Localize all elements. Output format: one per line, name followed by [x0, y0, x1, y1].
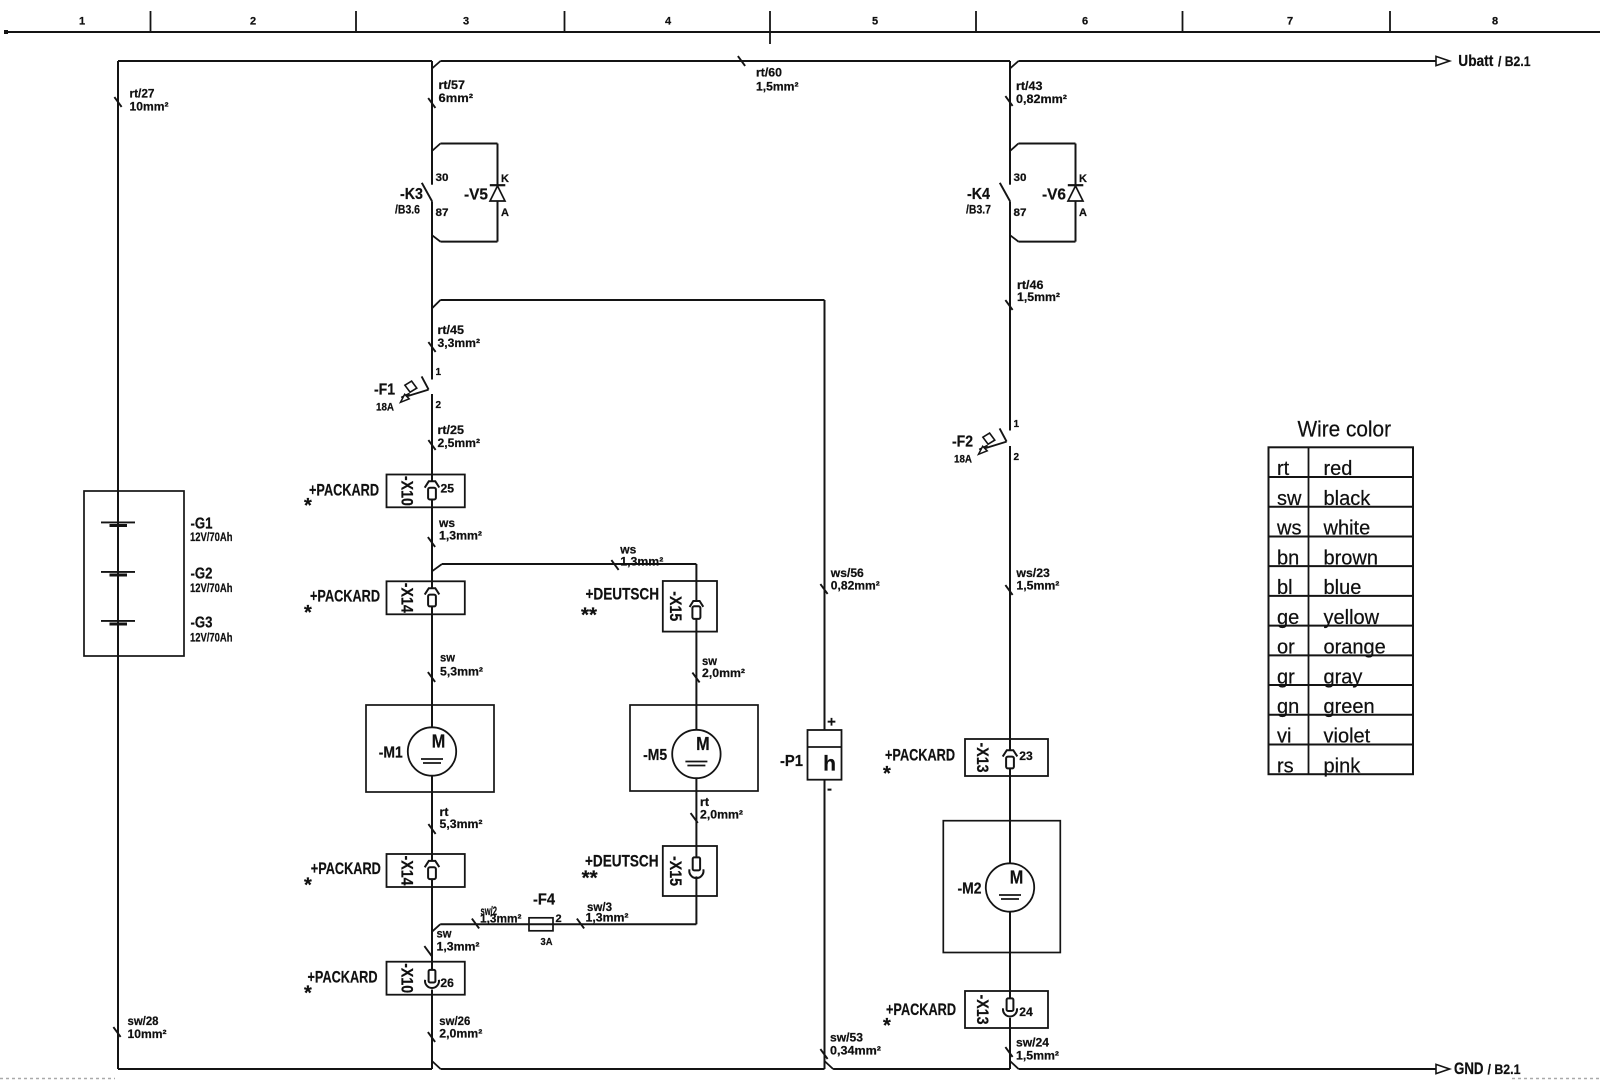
svg-text:sw: sw: [440, 651, 456, 665]
svg-text:**: **: [582, 868, 598, 890]
pin contact X15 lower: [689, 857, 703, 878]
svg-text:0,82mm²: 0,82mm²: [831, 579, 880, 593]
svg-text:green: green: [1324, 696, 1375, 718]
wire label rt/60 1,5mm2 (top bus): [738, 56, 799, 93]
wire ws 1,3mm2 branch to X15: [432, 543, 696, 602]
wire label ws/56 0,82mm2: [820, 566, 879, 594]
svg-text:black: black: [1324, 488, 1372, 510]
svg-text:12V/70Ah: 12V/70Ah: [190, 633, 233, 645]
wire color legend table: [1269, 417, 1414, 778]
connector X15 lower (+DEUTSCH): [582, 846, 717, 896]
svg-text:18A: 18A: [954, 454, 972, 466]
svg-text:+PACKARD: +PACKARD: [310, 587, 380, 606]
wire branch to hour-meter P1: [432, 300, 825, 730]
connector X10 pin 26 (+PACKARD): [304, 962, 465, 1005]
motor M5: [630, 705, 758, 791]
svg-text:2: 2: [1014, 452, 1020, 463]
svg-text:-: -: [827, 781, 832, 798]
svg-text:-X15: -X15: [666, 591, 685, 621]
node Ubatt : top supply bus: [118, 53, 1531, 70]
svg-text:-X14: -X14: [398, 856, 417, 886]
connector X15 upper (+DEUTSCH): [581, 581, 717, 632]
svg-text:-X10: -X10: [398, 476, 417, 506]
wire rt 5,3mm2 : M1 to X14 lower: [428, 776, 482, 861]
svg-text:*: *: [883, 1015, 891, 1037]
svg-text:rt/60: rt/60: [756, 66, 782, 80]
wire X13 to M2: [1009, 768, 1011, 863]
svg-text:4: 4: [665, 16, 672, 28]
svg-text:-G3: -G3: [191, 615, 213, 632]
connector X14 upper (+PACKARD): [304, 581, 465, 624]
wire label rt/27 10mm2: [114, 87, 168, 114]
svg-text:ge: ge: [1277, 607, 1299, 629]
svg-text:10mm²: 10mm²: [130, 100, 169, 114]
svg-text:87: 87: [1014, 207, 1027, 219]
pin contact X15 upper: [690, 601, 704, 619]
svg-text:-X10: -X10: [398, 963, 417, 993]
svg-text:gn: gn: [1277, 696, 1299, 718]
svg-text:violet: violet: [1324, 726, 1371, 748]
svg-text:25: 25: [441, 484, 455, 496]
svg-text:*: *: [883, 763, 891, 785]
svg-text:-P1: -P1: [780, 753, 803, 770]
svg-text:-V5: -V5: [464, 187, 488, 204]
svg-text:5,3mm²: 5,3mm²: [440, 665, 483, 679]
wire rt 2,0mm2 : M5 to X15 lower: [691, 778, 743, 857]
svg-text:2: 2: [436, 400, 442, 411]
svg-text:1,5mm²: 1,5mm²: [756, 80, 799, 94]
svg-text:*: *: [304, 875, 312, 897]
svg-text:/ B2.1: / B2.1: [1488, 1062, 1521, 1077]
svg-text:2: 2: [556, 913, 562, 925]
svg-text:sw/28: sw/28: [128, 1014, 159, 1028]
pin contact X14 lower: [425, 861, 440, 879]
svg-text:brown: brown: [1324, 547, 1378, 569]
svg-text:26: 26: [440, 978, 454, 990]
wire label sw 1,3mm2: [424, 927, 479, 956]
svg-text:23: 23: [1019, 751, 1033, 763]
svg-text:-G1: -G1: [191, 516, 213, 533]
svg-text:-X13: -X13: [973, 995, 992, 1025]
wire label rt/45 3,3mm2: [428, 323, 480, 352]
svg-text:0,34mm²: 0,34mm²: [830, 1044, 881, 1058]
wire label sw/28 10mm2: [113, 1014, 166, 1041]
svg-text:*: *: [304, 495, 312, 517]
svg-text:Ubatt: Ubatt: [1458, 53, 1494, 70]
wire rt/25 : F1 to X10: [428, 394, 480, 481]
svg-text:pink: pink: [1324, 755, 1362, 777]
svg-text:A: A: [501, 207, 509, 219]
svg-text:5,3mm²: 5,3mm²: [440, 817, 483, 831]
wire rt/43 : K4 column from Ubatt: [1005, 61, 1067, 431]
connector X14 lower (+PACKARD): [304, 854, 465, 897]
svg-text:3,3mm²: 3,3mm²: [438, 336, 481, 350]
svg-text:rt/27: rt/27: [130, 87, 155, 101]
wire ws/23 : F2 to X13: [1005, 446, 1059, 750]
pin contact X14 upper: [425, 588, 440, 606]
wire sw/26 : X10 to GND: [428, 990, 482, 1070]
wire sw 2,0mm2 : X15 to M5: [692, 619, 745, 730]
svg-text:1: 1: [436, 367, 442, 378]
svg-text:1,5mm²: 1,5mm²: [1016, 579, 1059, 593]
wire M2 to X13 lower: [1009, 912, 1011, 999]
svg-text:M: M: [432, 732, 446, 752]
battery cell G3: [101, 615, 233, 645]
svg-text:rt/57: rt/57: [439, 78, 466, 92]
svg-text:12V/70Ah: 12V/70Ah: [190, 532, 233, 544]
svg-text:-K3: -K3: [400, 186, 423, 203]
svg-text:-V6: -V6: [1042, 187, 1066, 204]
svg-text:30: 30: [1014, 172, 1027, 184]
battery cell G1: [101, 516, 233, 545]
svg-text:bn: bn: [1277, 547, 1299, 569]
svg-text:gr: gr: [1277, 666, 1295, 688]
svg-text:-F4: -F4: [533, 892, 555, 909]
svg-text:K: K: [1079, 173, 1087, 185]
svg-text:sw/53: sw/53: [830, 1031, 863, 1045]
svg-text:24: 24: [1019, 1007, 1033, 1019]
pin contact X13:24: [1003, 998, 1033, 1019]
hour meter P1: [780, 714, 842, 798]
svg-text:orange: orange: [1324, 637, 1386, 659]
relay contact K4: [966, 172, 1027, 219]
svg-text:sw: sw: [437, 927, 453, 941]
svg-text:sw/24: sw/24: [1016, 1036, 1049, 1050]
svg-text:white: white: [1323, 518, 1371, 540]
svg-text:K: K: [501, 173, 509, 185]
fuse F4 3A: [529, 892, 562, 949]
svg-text:A: A: [1079, 207, 1087, 219]
pin contact X10:26: [425, 970, 454, 990]
svg-text:1,3mm²: 1,3mm²: [480, 912, 522, 926]
svg-text:8: 8: [1492, 16, 1498, 28]
battery box G1/G2/G3: [84, 491, 184, 656]
svg-text:2,5mm²: 2,5mm²: [438, 436, 481, 450]
svg-text:rt/25: rt/25: [438, 423, 465, 437]
connector X13 pin 24 (+PACKARD): [883, 991, 1048, 1037]
svg-text:1,5mm²: 1,5mm²: [1017, 290, 1060, 304]
svg-text:rt/43: rt/43: [1016, 79, 1043, 93]
svg-text:rt: rt: [1277, 458, 1290, 480]
svg-text:-M1: -M1: [379, 745, 403, 762]
motor M1: [366, 705, 494, 792]
svg-text:**: **: [581, 605, 597, 627]
wire sw/53 : P1 to GND: [820, 780, 881, 1069]
wire sw 5,3mm2 : X14 to M1: [428, 606, 483, 727]
svg-text:6mm²: 6mm²: [439, 91, 474, 105]
svg-text:ws: ws: [1276, 518, 1301, 540]
svg-text:3: 3: [463, 16, 469, 28]
pin contact X13:23: [1003, 750, 1033, 768]
wire label rt/46 1,5mm2: [1005, 278, 1060, 310]
svg-text:red: red: [1324, 458, 1353, 480]
wire rt/27 - sw/28 : left battery column: [117, 61, 119, 1069]
svg-text:+PACKARD: +PACKARD: [886, 1000, 956, 1019]
svg-text:sw: sw: [1277, 488, 1302, 510]
svg-text:2,0mm²: 2,0mm²: [439, 1027, 482, 1041]
svg-text:-X14: -X14: [398, 583, 417, 613]
wire sw : X14 lower to junction: [431, 879, 433, 970]
svg-text:1,3mm²: 1,3mm²: [586, 911, 629, 925]
wire label rt/57 6mm2: [428, 78, 473, 108]
svg-text:+: +: [827, 714, 836, 731]
svg-text:1,3mm²: 1,3mm²: [620, 555, 663, 569]
battery cell G2: [101, 566, 233, 596]
diode V5 (bypass of K3 contact): [432, 144, 509, 242]
svg-text:-M2: -M2: [958, 881, 982, 898]
connector X10 pin 25 (+PACKARD): [304, 475, 465, 518]
svg-text:/B3.7: /B3.7: [966, 203, 991, 217]
wire sw/24 : X13 to GND: [1005, 1018, 1059, 1069]
svg-text:bl: bl: [1277, 577, 1293, 599]
wire sw/2 : junction to fuse F4: [432, 904, 529, 932]
wire sw/3 : F4 to X15 lower: [553, 876, 696, 928]
svg-text:0,82mm²: 0,82mm²: [1016, 92, 1067, 106]
svg-text:+PACKARD: +PACKARD: [885, 746, 955, 765]
svg-text:3A: 3A: [541, 936, 553, 948]
svg-text:rt/45: rt/45: [438, 323, 465, 337]
relay contact K3: [395, 172, 449, 219]
svg-text:2: 2: [250, 16, 256, 28]
svg-text:-X13: -X13: [973, 743, 992, 773]
svg-text:yellow: yellow: [1324, 607, 1380, 629]
svg-text:blue: blue: [1324, 577, 1362, 599]
svg-text:/B3.6: /B3.6: [395, 203, 420, 217]
svg-text:2,0mm²: 2,0mm²: [702, 666, 745, 680]
svg-text:h: h: [823, 753, 836, 776]
svg-text:-F2: -F2: [952, 434, 973, 451]
svg-text:Wire color: Wire color: [1298, 417, 1392, 442]
svg-text:6: 6: [1082, 16, 1088, 28]
svg-text:+DEUTSCH: +DEUTSCH: [586, 585, 660, 604]
wire rt/57 : K3 column from Ubatt: [431, 61, 433, 380]
svg-text:1,3mm²: 1,3mm²: [439, 529, 482, 543]
svg-text:87: 87: [436, 207, 449, 219]
svg-text:1,5mm²: 1,5mm²: [1016, 1049, 1059, 1063]
svg-text:M: M: [696, 734, 710, 754]
ruler: [5, 11, 1600, 44]
svg-text:-X15: -X15: [666, 856, 685, 886]
svg-text:gray: gray: [1324, 666, 1363, 688]
svg-text:-F1: -F1: [374, 382, 395, 399]
svg-text:-G2: -G2: [191, 566, 213, 583]
svg-text:1: 1: [1014, 419, 1020, 430]
node GND : bottom ground bus: [118, 1060, 1521, 1078]
diode V6 (bypass of K4 contact): [1010, 144, 1087, 242]
svg-text:18A: 18A: [376, 402, 394, 414]
svg-text:7: 7: [1287, 16, 1293, 28]
wire ws 1,3mm2 : X10 to X14: [428, 500, 482, 589]
motor M2: [943, 821, 1060, 953]
fuse/breaker F1 18A: [374, 367, 442, 414]
pin contact X10:25: [425, 481, 455, 499]
svg-text:/ B2.1: / B2.1: [1498, 54, 1531, 69]
svg-text:vi: vi: [1277, 726, 1291, 748]
svg-text:-M5: -M5: [643, 747, 667, 764]
fuse/breaker F2 18A: [952, 419, 1020, 466]
svg-text:10mm²: 10mm²: [128, 1027, 167, 1041]
connector X13 pin 23 (+PACKARD): [883, 739, 1048, 785]
svg-text:30: 30: [436, 172, 449, 184]
svg-text:2,0mm²: 2,0mm²: [700, 808, 743, 822]
svg-text:GND: GND: [1454, 1060, 1484, 1078]
frame remnant marks: [0, 1078, 1600, 1080]
svg-text:+PACKARD: +PACKARD: [308, 967, 378, 986]
svg-text:M: M: [1010, 868, 1024, 888]
svg-text:1,3mm²: 1,3mm²: [437, 940, 480, 954]
svg-text:*: *: [304, 982, 312, 1004]
svg-text:5: 5: [872, 16, 878, 28]
svg-text:or: or: [1277, 637, 1295, 659]
svg-text:rs: rs: [1277, 755, 1294, 777]
svg-text:-K4: -K4: [967, 186, 990, 203]
svg-text:+PACKARD: +PACKARD: [311, 859, 381, 878]
svg-text:12V/70Ah: 12V/70Ah: [190, 583, 233, 595]
svg-text:+PACKARD: +PACKARD: [309, 481, 379, 500]
svg-text:1: 1: [79, 16, 85, 28]
svg-text:*: *: [304, 602, 312, 624]
